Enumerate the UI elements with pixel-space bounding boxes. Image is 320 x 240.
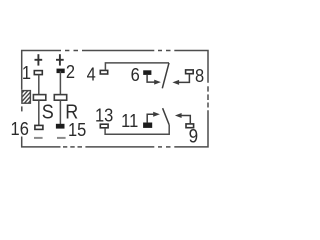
wire case outline bottom edge middle solid [85,146,154,148]
svg-text:4: 4 [87,64,96,85]
svg-text:15: 15 [68,119,86,140]
pin 2 terminal (filled) [57,69,65,74]
wire case outline bottom edge dash 2a [63,146,67,148]
wire case outline bottom-left corner [22,137,61,147]
polarity - for pin 16 [34,137,43,139]
wire pin 9 arm with arrow [181,116,191,124]
wire case outline top edge left solid + left edge upper [22,51,61,90]
pin 11 terminal (filled) [143,123,152,128]
wire pin 6 movable arm with arrow [147,75,155,82]
wire coil R to pin 15 [59,101,61,125]
coil S [33,95,45,101]
wire pin 13 to bottom contact blade anchor [105,125,169,134]
wire case outline bottom-right corner [174,110,208,147]
polarity + for pin 2 [56,54,64,65]
svg-text:S: S [42,102,54,124]
wire case outline bottom edge dash 2b [70,146,74,148]
wire case outline left edge dash [21,106,23,111]
pin 1 terminal (open) [34,71,42,75]
svg-text:13: 13 [95,105,113,126]
svg-text:2: 2 [66,61,75,82]
wire pin 4 to top contact blade anchor [105,63,169,71]
pin 9 terminal (open) [186,124,194,128]
svg-text:6: 6 [131,64,140,85]
wire case outline bottom edge dash 3 [158,146,162,148]
wire case outline top edge middle solid [82,50,154,52]
wire pin 11 movable arm with arrow [147,114,154,122]
orientation mark (hatched box) [21,82,33,116]
wire pin 8 arm with arrow [178,74,189,83]
arrowhead pin 11 arm [153,112,160,117]
pin 15 terminal (filled) [56,124,65,129]
wire pin1 to coil S [38,75,40,95]
wire pin2 to coil R [59,71,61,95]
pin 13 terminal (open) [100,124,108,128]
top contact blade [162,63,169,88]
arrowhead pin 6 arm [154,80,161,85]
svg-text:16: 16 [11,118,29,139]
wire coil S to pin 16 [38,101,40,126]
svg-text:8: 8 [195,65,204,86]
wire case outline right edge dash 3 [207,103,209,108]
svg-text:11: 11 [121,110,138,131]
pin 6 terminal (filled) [143,70,151,75]
bottom contact blade [163,108,170,125]
wire case outline top edge dash 3 [158,50,162,52]
pin 4 terminal (open) [100,70,107,74]
wire case outline top edge dash 1 [65,50,69,52]
coil R [54,95,66,101]
svg-text:1: 1 [22,62,31,83]
wire case outline right edge dash 2 [207,94,209,100]
polarity + for pin 1 [35,54,43,65]
pin 16 terminal (open) [35,125,43,129]
wire case outline bottom edge dash 2c [78,146,83,148]
wire case outline right edge dash 1 [207,86,209,91]
wire case outline top edge dash 2 [74,50,79,52]
pin 8 terminal (open) [186,70,194,74]
polarity - for pin 15 [57,137,66,139]
wire case outline top-right corner [174,51,208,83]
wire case outline top edge dash 4 [166,50,171,52]
wire case outline bottom edge dash 4 [166,146,171,148]
arrowhead pin 9 arm [175,113,182,118]
arrowhead pin 8 arm [172,80,179,85]
